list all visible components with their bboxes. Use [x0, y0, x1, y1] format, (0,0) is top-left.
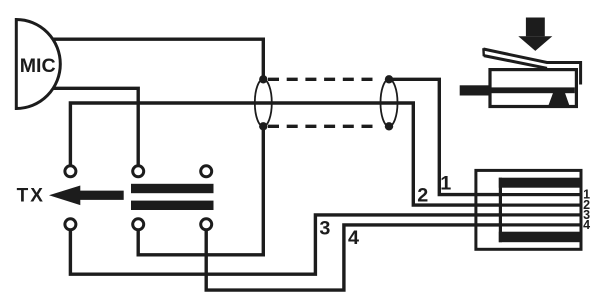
- svg-text:TX: TX: [17, 186, 45, 207]
- svg-text:4: 4: [348, 227, 359, 249]
- svg-text:3: 3: [319, 217, 330, 239]
- svg-text:2: 2: [417, 184, 428, 206]
- svg-text:MIC: MIC: [20, 55, 56, 77]
- svg-text:1: 1: [440, 173, 451, 195]
- svg-text:4: 4: [583, 218, 590, 232]
